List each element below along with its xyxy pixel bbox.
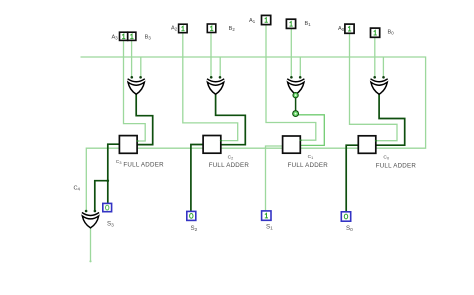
wire: FA1 sum to output S1 [266, 146, 283, 211]
input B2 [207, 24, 216, 33]
svg-text:A0: A0 [338, 26, 345, 32]
node N1 (XOR U1 output) [293, 93, 298, 98]
input B0 [371, 28, 380, 37]
xor gate U4 (overflow) [82, 210, 99, 228]
svg-text:C0: C0 [383, 155, 389, 161]
svg-text:B2: B2 [229, 26, 236, 32]
input A0 [345, 24, 354, 33]
input A1 [262, 15, 271, 24]
node: junction on S3 wire [107, 179, 110, 182]
svg-text:B1: B1 [305, 21, 312, 27]
svg-text:FULL ADDER: FULL ADDER [376, 162, 417, 169]
wire: overflow XOR U4 output [90, 228, 92, 261]
pin dot FA0 A [375, 140, 377, 142]
input B1 [286, 19, 295, 28]
wire: bus branch to XOR U2 right input [219, 57, 221, 77]
wire: A1 input to FA1 pin A [266, 25, 316, 140]
wire: XOR U2 output to FA2 pin B [216, 94, 246, 145]
svg-text:A1: A1 [249, 18, 256, 24]
xor gate U3 [128, 76, 145, 94]
svg-text:FULL ADDER: FULL ADDER [209, 162, 250, 169]
output S2 [187, 211, 196, 220]
svg-text:B0: B0 [388, 30, 395, 36]
input A3 [120, 32, 128, 40]
node N2 [293, 111, 299, 117]
svg-text:A2: A2 [171, 26, 178, 32]
wire: XOR U1 output to node N1/N2 [295, 94, 297, 114]
svg-text:FULL ADDER: FULL ADDER [123, 162, 164, 169]
svg-text:C1: C1 [308, 154, 314, 160]
full adder FA0 [358, 136, 376, 154]
pin dot FA1 A [300, 139, 302, 141]
wire: bus branch to XOR U0 right input [382, 57, 384, 77]
wire: XOR U0 output to FA0 pin B [376, 94, 405, 146]
input A2 [179, 24, 188, 33]
svg-text:A3: A3 [112, 34, 119, 40]
wire: FA0 out to output S0 [346, 145, 358, 212]
svg-text:C4: C4 [74, 186, 81, 192]
pin dot FA3 A [136, 140, 138, 142]
xor gate U2 [207, 76, 224, 94]
wire: A0 input to FA0 pin A [350, 32, 398, 141]
xor gate U0 [371, 76, 388, 94]
svg-text:FULL ADDER: FULL ADDER [288, 162, 329, 169]
input B3 [128, 32, 136, 40]
wire: A3 input to FA3 pin A [124, 41, 146, 142]
wire: XOR U3 output to FA3 pin B [136, 94, 153, 145]
svg-text:C3: C3 [116, 159, 122, 165]
output S3 [103, 203, 112, 211]
node: end of overflow XOR output [89, 260, 91, 262]
wire: FA2 out to output S2 [191, 145, 204, 213]
xor gate U1 [287, 76, 304, 94]
wire: B0 input to XOR U0 [374, 36, 376, 77]
pin dot FA2 A [220, 140, 222, 142]
svg-text:B3: B3 [145, 34, 152, 40]
wire: FA3 out to S3 and overflow XOR [108, 144, 120, 204]
full adder FA3 [119, 136, 137, 154]
output S1 [262, 211, 271, 220]
wire: node N2 to FA1 pin B [296, 115, 325, 146]
wire: A2 input to FA2 pin A [183, 32, 238, 140]
svg-text:C2: C2 [228, 155, 234, 161]
full adder FA2 [203, 136, 221, 154]
full adder FA1 [283, 136, 301, 153]
wire: B1 input to XOR U1 [290, 29, 292, 78]
wire: branch junction to XOR U4 right input [95, 181, 108, 212]
output S0 [341, 212, 350, 221]
wire: bus branch to XOR U3 right input [140, 57, 142, 77]
wire: B2 input to XOR U2 [210, 32, 212, 77]
wire: SUB bus top + right loop + carry-in bus + C4 drop [81, 57, 426, 211]
wire: B3 input to XOR U3 [131, 41, 133, 78]
wire: bus branch to XOR U1 right input [299, 57, 301, 77]
